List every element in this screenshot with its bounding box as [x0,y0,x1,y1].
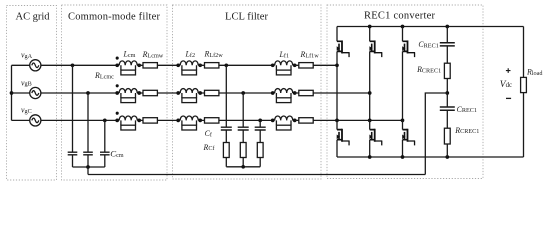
AC grid box [7,6,57,181]
node RCf star [241,165,245,169]
inductor Lcm B [115,89,141,103]
node source bus RCREC1 [445,155,449,159]
node Cf tap C [258,119,262,123]
resistor RLcmw C [143,118,157,123]
transistor S2 top leg2 [369,27,371,42]
wires caps to bottom bus [73,155,105,167]
wire B mid [200,92,273,94]
svg-text:CREC1: CREC1 [457,105,477,114]
node Cf tap A [224,63,228,67]
source vgC [30,115,41,126]
svg-text:LCL filter: LCL filter [225,11,269,22]
svg-text:Lf1: Lf1 [279,50,290,59]
capacitor CREC1 top [446,27,448,43]
wire phase A [41,64,117,66]
resistor RCf B [240,143,246,158]
wire phase C [41,119,117,121]
wire bus to source A [12,64,30,66]
wire B out [295,92,370,94]
node Ccm star [86,165,90,169]
node drain bus leg1 [335,119,339,123]
transistor S4 bottom leg1 [336,120,338,129]
resistor RCf C [257,143,263,158]
top rail [337,26,524,28]
node source bus leg3 [401,155,405,159]
node rail CREC1 [445,25,449,29]
leg1 vertical [336,51,338,120]
inductor Lf1 B [271,89,297,103]
resistor RLcmw B [143,90,157,95]
polarity dot A [116,57,119,60]
node at bus phase B [10,91,14,95]
wire star drop [87,167,89,175]
wire C out / drain bus [295,119,403,121]
node phase B leg2 [368,91,372,95]
capacitor Ccm A [68,152,78,155]
inductor Lf2 B [176,89,202,103]
wire bus to source C [12,119,30,121]
wire Cf tap B [242,93,244,127]
node Cf tap B [241,91,245,95]
capacitor Cf A [221,127,232,130]
wire A out [295,64,337,66]
wire tap C down [104,120,106,152]
transistor S3 top leg3 [402,27,404,42]
svg-text:vgB: vgB [21,78,32,87]
transistor S6 bottom leg3 [402,120,404,129]
inductor Lf2 A [176,61,202,75]
svg-text:REC1 converter: REC1 converter [364,11,436,22]
node source bus leg2 [368,155,372,159]
svg-text:AC grid: AC grid [16,11,51,22]
resistor RLcmw A [143,63,157,68]
wire Cf tap C [259,120,261,127]
leg2 vertical [369,51,371,120]
wire C [139,119,178,121]
resistor RCf A [223,143,229,158]
inductor Lcm A [115,61,141,75]
wire phase B [41,92,117,94]
node DC midpoint [445,91,449,95]
leg3 vertical [402,51,404,120]
svg-text:RCREC1: RCREC1 [454,126,479,135]
node tap C [103,119,107,123]
node tap A [71,63,75,67]
wire A mid [200,64,273,66]
svg-text:RLf1w: RLf1w [300,50,320,59]
RCf bottom bus [226,166,260,168]
resistor RLf2w B [205,90,219,95]
LCL filter box [173,5,322,179]
Ccm bottom bus [73,166,105,168]
left bus wire [11,65,13,120]
svg-text:RCf: RCf [203,143,216,152]
source bus [337,156,524,158]
polarity dot B [116,84,119,87]
source vgA [30,60,41,71]
node drain bus leg3 [401,119,405,123]
svg-text:Rload: Rload [526,68,543,77]
capacitor Ccm C [100,152,110,155]
capacitor Ccm B [83,152,93,155]
wire C mid [200,119,273,121]
node drain bus leg2 [368,119,372,123]
wire B [139,92,178,94]
REC1 converter box [327,5,483,179]
capacitor Cf B [238,127,249,130]
svg-text:Vdc: Vdc [500,80,512,90]
svg-text:RLcmc: RLcmc [94,71,114,80]
node rail leg2 [368,25,372,29]
resistor RCREC1 bottom [446,110,448,128]
Common-mode filter box [62,5,168,180]
wire A [139,64,178,66]
inductor Lf1 A [271,61,297,75]
svg-text:Cf: Cf [205,129,213,138]
resistor RCREC1 top [446,46,448,63]
wires resistors to bus [226,158,260,167]
resistor RLf1w B [299,90,313,95]
svg-text:vgC: vgC [21,106,32,115]
wire tap A down [72,65,74,152]
svg-text:Common-mode filter: Common-mode filter [68,11,161,22]
capacitor Cf C [255,127,266,130]
wires caps to resistors [226,130,260,143]
inductor Lf2 C [176,116,202,130]
wire tap B down [87,93,89,152]
wire Cf tap A [225,65,227,127]
resistor RLf2w A [205,63,219,68]
resistor RLf1w C [299,118,313,123]
resistor Rload [521,77,527,92]
source vgB [30,87,41,98]
inductor Lf1 C [271,116,297,130]
node tap B [86,91,90,95]
svg-text:RLcmw: RLcmw [142,50,164,59]
capacitor CREC1 bottom [446,93,448,107]
resistor RLf1w A [299,63,313,68]
label minus [506,97,511,99]
resistor RLf2w C [205,118,219,123]
node phase A leg1 [335,63,339,67]
right rail + load [523,27,525,158]
node rail leg3 [401,25,405,29]
label plus [506,68,511,73]
transistor S1 top leg1 [336,27,338,42]
wire bus to source B [12,92,30,94]
polarity dot C [116,112,119,115]
wire midpoint stub [425,93,447,175]
inductor Lcm C [115,116,141,130]
transistor S5 bottom leg2 [369,120,371,129]
